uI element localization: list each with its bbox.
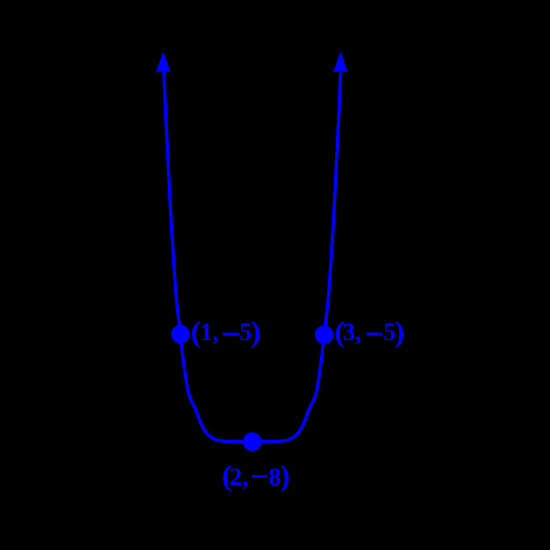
svg-text:): ): [395, 316, 405, 349]
svg-text:): ): [251, 316, 261, 349]
point dot (1,-5): [171, 325, 190, 344]
point dot (3,-5): [315, 326, 334, 345]
svg-text:1,: 1,: [200, 319, 219, 346]
svg-text:): ): [280, 460, 290, 493]
arrowhead right: [333, 52, 348, 73]
svg-text:3,: 3,: [343, 319, 362, 346]
parabola curve of y = 3(x-2)^2 - 8: [164, 68, 341, 441]
label (1,-5): [191, 316, 261, 349]
label (3,-5): [335, 316, 405, 349]
svg-text:2,: 2,: [230, 464, 249, 491]
arrowhead left: [156, 52, 171, 73]
vertex dot (2,-8): [243, 432, 262, 451]
label (2,-8): [222, 460, 290, 493]
